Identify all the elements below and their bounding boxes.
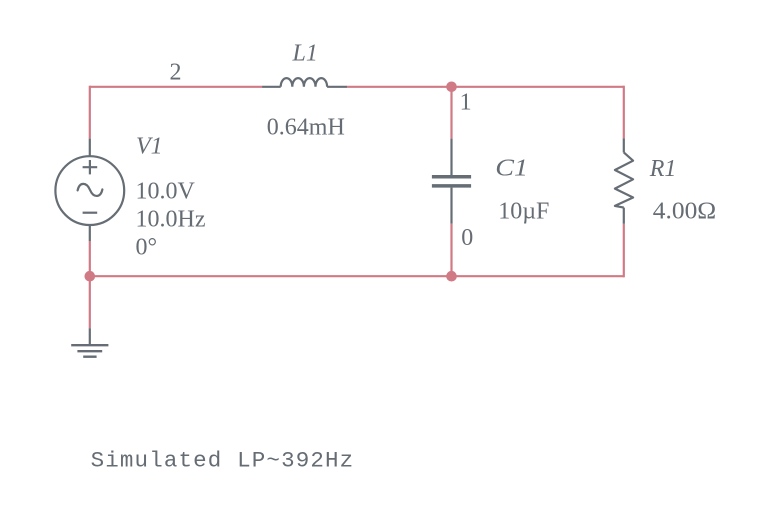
- voltage source V1 lead bottom: [89, 225, 91, 241]
- svg-text:2: 2: [170, 60, 182, 86]
- resistor R1 zigzag: [615, 152, 633, 207]
- inductor L1 lead right: [327, 86, 347, 88]
- svg-text:0.64mH: 0.64mH: [267, 115, 345, 141]
- svg-text:R1: R1: [649, 156, 677, 182]
- voltage source V1 lead top: [89, 139, 91, 157]
- node junction dot ground-left: [85, 271, 96, 282]
- wire top horizontal left of L1: [90, 86, 262, 88]
- ground bar 3: [83, 356, 96, 358]
- svg-text:4.00Ω: 4.00Ω: [653, 198, 716, 224]
- wire top horizontal right of L1: [347, 86, 624, 88]
- wire ground stem pink: [89, 276, 91, 328]
- wire bottom horizontal: [90, 275, 624, 277]
- svg-text:V1: V1: [136, 134, 163, 160]
- svg-text:0°: 0°: [136, 235, 158, 261]
- voltage source V1 circle: [55, 156, 124, 225]
- capacitor C1 lead bottom: [450, 188, 452, 224]
- voltage source V1 minus sign: [83, 212, 98, 214]
- node junction dot node 0 bottom: [446, 271, 457, 282]
- ground stem gray: [89, 328, 91, 345]
- svg-text:Simulated LP~392Hz: Simulated LP~392Hz: [91, 448, 355, 474]
- node junction dot node 1: [446, 82, 457, 93]
- svg-text:L1: L1: [292, 40, 318, 66]
- svg-text:10.0Hz: 10.0Hz: [136, 207, 206, 233]
- ground bar 1: [71, 344, 108, 346]
- svg-text:0: 0: [461, 225, 473, 251]
- svg-text:10.0V: 10.0V: [136, 179, 196, 205]
- capacitor C1 lead top: [450, 139, 452, 175]
- inductor L1 lead left: [262, 86, 281, 88]
- resistor R1 lead top: [623, 138, 625, 152]
- voltage source V1 plus sign: [83, 160, 98, 174]
- capacitor C1 top plate: [432, 175, 471, 179]
- wire left vertical below V1: [89, 241, 91, 276]
- capacitor C1 bottom plate: [432, 184, 471, 188]
- wire resistor branch lower: [623, 224, 625, 277]
- inductor L1 humps: [281, 78, 327, 87]
- wire resistor branch upper: [623, 86, 625, 139]
- svg-text:C1: C1: [495, 154, 528, 181]
- ground bar 2: [77, 350, 102, 352]
- svg-text:1: 1: [460, 89, 472, 115]
- svg-text:10µF: 10µF: [498, 198, 549, 224]
- resistor R1 lead bottom: [623, 208, 625, 224]
- wire left vertical above V1: [89, 86, 91, 139]
- wire capacitor branch upper: [450, 87, 452, 139]
- wire capacitor branch lower: [450, 224, 452, 277]
- voltage source V1 sine wave: [78, 184, 103, 196]
